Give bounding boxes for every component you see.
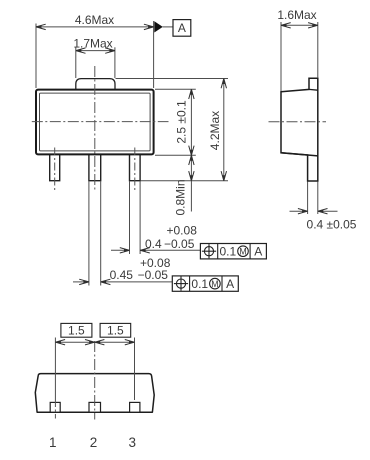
- svg-text:1: 1: [49, 435, 57, 450]
- svg-text:0.4 ±0.05: 0.4 ±0.05: [307, 218, 357, 232]
- pin 1 pad: [50, 402, 60, 412]
- feature control frame 2: [172, 276, 238, 291]
- pin2 centerline: [94, 341, 96, 420]
- dimension 1.7Max: [73, 37, 115, 78]
- svg-text:2: 2: [90, 435, 98, 450]
- extension line tab top: [116, 78, 229, 80]
- pin1 centerline: [54, 338, 56, 419]
- svg-text:0.8Min: 0.8Min: [174, 179, 188, 215]
- extension line body bottom: [155, 154, 196, 156]
- pin3 centerline: [134, 338, 136, 401]
- dimension line 1.5 pitch: [55, 340, 134, 345]
- pin 2 pad: [89, 402, 101, 412]
- horizontal centerline: [32, 121, 169, 123]
- body inner line: [40, 93, 151, 151]
- svg-text:−0.05: −0.05: [138, 268, 169, 282]
- svg-text:M: M: [239, 247, 246, 257]
- svg-text:3: 3: [129, 435, 137, 450]
- extension line lead bottom: [141, 180, 229, 182]
- datum A flag: [154, 20, 191, 37]
- dimension 4.2Max: [208, 79, 227, 181]
- svg-text:0.4: 0.4: [145, 237, 162, 251]
- vertical centerline: [94, 66, 96, 191]
- lead3 centerline: [134, 148, 136, 192]
- basic dimension box 1.5 (right): [100, 323, 131, 337]
- side view centerline: [269, 121, 327, 123]
- dimension 0.4 +0.08 -0.05 leader: [111, 224, 200, 254]
- bottom view body outline: [35, 374, 154, 413]
- dimension 0.45 +0.08 -0.05 leader: [73, 256, 172, 285]
- tab on top of body: [76, 79, 115, 89]
- lead 1 (left): [50, 150, 60, 181]
- svg-text:A: A: [178, 21, 186, 35]
- svg-text:0.45: 0.45: [110, 268, 134, 282]
- svg-text:+0.08: +0.08: [140, 256, 171, 270]
- pin number 3: [129, 435, 137, 450]
- svg-text:1.7Max: 1.7Max: [73, 37, 112, 51]
- lead2 width extension lines: [89, 182, 101, 286]
- side view outline: [281, 78, 318, 181]
- svg-text:A: A: [254, 245, 262, 259]
- svg-text:1.5: 1.5: [107, 323, 124, 337]
- lead1 centerline: [54, 148, 56, 192]
- basic dimension box 1.5 (left): [61, 323, 92, 337]
- lead3 width extension lines: [130, 182, 141, 255]
- package body outline: [36, 90, 154, 155]
- lead 2 (center): [89, 150, 101, 181]
- svg-text:0.1: 0.1: [220, 245, 237, 259]
- svg-text:2.5 ±0.1: 2.5 ±0.1: [175, 100, 189, 144]
- svg-text:4.2Max: 4.2Max: [208, 111, 222, 150]
- svg-text:4.6Max: 4.6Max: [75, 13, 114, 27]
- svg-text:+0.08: +0.08: [167, 224, 198, 238]
- svg-text:1.5: 1.5: [68, 323, 85, 337]
- svg-text:0.1: 0.1: [191, 277, 208, 291]
- pin number 2: [90, 435, 98, 450]
- dimension 0.4 +-0.05 (side lead): [290, 182, 357, 232]
- lead 3 (right): [130, 150, 141, 181]
- dimension 0.8Min: [174, 155, 195, 215]
- feature control frame 1: [200, 244, 266, 259]
- dimension 1.6Max: [277, 8, 317, 91]
- svg-text:M: M: [211, 279, 218, 289]
- dimension 2.5 +-0.1: [175, 89, 195, 211]
- svg-text:−0.05: −0.05: [164, 237, 195, 251]
- pin number 1: [49, 435, 57, 450]
- svg-text:A: A: [226, 277, 234, 291]
- pin 3 pad: [130, 402, 140, 412]
- dimension 4.6Max: [36, 13, 154, 88]
- svg-text:1.6Max: 1.6Max: [277, 8, 316, 22]
- extension line body top: [155, 88, 196, 90]
